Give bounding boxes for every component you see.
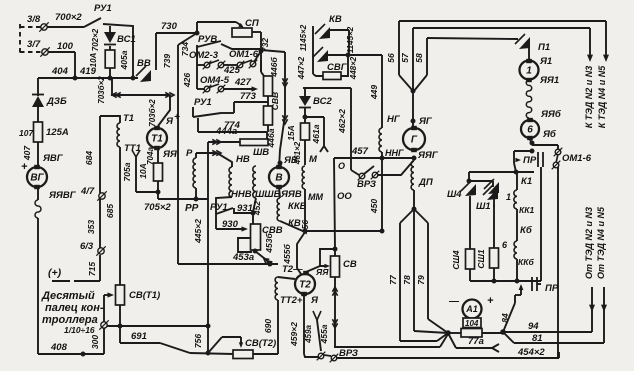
fuse 10А (ВС1 branch)	[89, 46, 115, 78]
svg-text:Т1: Т1	[151, 134, 163, 145]
svg-text:77: 77	[388, 274, 398, 285]
svg-text:756: 756	[193, 334, 203, 348]
wire switch to 405a	[103, 24, 133, 78]
label 407	[22, 145, 32, 161]
svg-text:ПР: ПР	[545, 283, 559, 294]
svg-text:ОМ1-6: ОМ1-6	[229, 49, 259, 60]
wire 756	[193, 326, 210, 355]
svg-text:1: 1	[526, 66, 532, 77]
label ННВ	[231, 189, 252, 200]
svg-text:РУ1: РУ1	[94, 3, 112, 14]
switch РУВ	[197, 34, 261, 49]
svg-text:461×2: 461×2	[293, 141, 302, 165]
svg-text:ЯЯб: ЯЯб	[540, 109, 562, 120]
svg-text:ММ: ММ	[308, 192, 323, 202]
svg-text:—: —	[448, 296, 460, 307]
motor Т1	[147, 126, 167, 149]
node junction 110/26	[109, 26, 111, 32]
wire 408	[38, 342, 104, 356]
generator ВГ	[27, 145, 47, 189]
resistor 444а	[215, 126, 268, 146]
winding НГ	[379, 114, 404, 160]
svg-text:419: 419	[79, 66, 97, 77]
wire 705x2	[158, 198, 208, 200]
svg-text:К ТЭД N2 и N3: К ТЭД N2 и N3	[584, 66, 594, 129]
fuse 15А	[286, 123, 310, 165]
wire 94	[503, 321, 592, 332]
wire 3/8 to RU1	[47, 26, 84, 28]
motor 6	[521, 118, 557, 140]
svg-text:ШШВ: ШШВ	[255, 189, 281, 200]
transformer Т1 primary	[100, 113, 134, 124]
wire ВС2 top	[303, 88, 351, 96]
node 77-79 junction	[446, 331, 451, 336]
label От ТЭД N4 и N5	[596, 206, 606, 279]
svg-text:1: 1	[506, 192, 511, 202]
wire 454 corner	[557, 352, 559, 359]
wire 264 rail	[178, 262, 278, 266]
resistor СП	[197, 18, 261, 37]
svg-text:4/7: 4/7	[80, 186, 95, 197]
arrow К ТЭД N2	[587, 28, 593, 62]
svg-text:730: 730	[161, 21, 178, 32]
node 6/3 contact	[80, 241, 106, 256]
svg-text:690: 690	[263, 319, 273, 333]
wire 449	[348, 55, 382, 128]
wire bottom rail	[337, 352, 559, 358]
wire ЯЯВ	[279, 187, 302, 200]
node 3/7 terminal	[27, 39, 50, 57]
svg-text:715: 715	[87, 262, 97, 276]
svg-text:ШВ: ШВ	[253, 147, 269, 158]
wire ЯЯ arrow	[306, 249, 335, 272]
node 4/7 contact	[80, 186, 107, 201]
winding ДП	[411, 161, 433, 190]
arrow От ТЭД N4	[601, 287, 607, 343]
svg-text:ДП: ДП	[418, 177, 433, 188]
label 703б×2 right	[148, 99, 157, 127]
svg-text:1/10÷16: 1/10÷16	[64, 325, 95, 335]
svg-text:931: 931	[237, 203, 253, 214]
svg-text:КК1: КК1	[519, 205, 534, 215]
label ЯЯ Т1	[162, 149, 178, 160]
svg-text:353: 353	[86, 220, 96, 234]
svg-text:407: 407	[22, 145, 32, 161]
switch ОМ2-3	[189, 50, 241, 76]
wire shunt right	[482, 330, 505, 335]
wire plus bracket	[52, 255, 100, 281]
wire 703б connector	[112, 78, 174, 126]
svg-text:ККВ: ККВ	[288, 201, 307, 212]
label ЯВГ	[42, 153, 64, 164]
svg-text:700×2: 700×2	[55, 12, 82, 23]
node 3/8 terminal	[27, 14, 49, 32]
arrester СВГ	[313, 47, 348, 62]
svg-text:739: 739	[162, 54, 172, 68]
fuse 125А	[19, 107, 69, 145]
svg-text:446б: 446б	[269, 57, 279, 78]
wire 739	[162, 45, 178, 264]
diode ДЗБ	[32, 95, 67, 108]
svg-text:Т2—: Т2—	[282, 264, 303, 275]
switch ВРЗ2	[317, 348, 358, 362]
svg-text:А1: А1	[465, 304, 478, 314]
svg-text:703б×2: 703б×2	[97, 76, 106, 104]
svg-text:ЯЯ: ЯЯ	[315, 267, 329, 277]
svg-text:462×2: 462×2	[337, 109, 347, 134]
svg-text:П1: П1	[538, 42, 550, 53]
wire 326 rail	[107, 324, 210, 328]
svg-text:палец кон-: палец кон-	[45, 302, 104, 314]
generator Г	[403, 91, 433, 152]
svg-text:773: 773	[240, 91, 257, 102]
svg-text:СШ1: СШ1	[476, 249, 486, 268]
label Я Т2	[310, 295, 319, 306]
wire 459а	[304, 311, 321, 351]
svg-text:К ТЭД N4 и N5: К ТЭД N4 и N5	[597, 65, 607, 128]
contact ПР bars	[538, 152, 543, 281]
svg-text:6/3: 6/3	[80, 241, 94, 252]
svg-text:78: 78	[402, 275, 412, 285]
disconnector П1	[515, 34, 550, 60]
svg-text:459а: 459а	[304, 325, 313, 344]
svg-text:81: 81	[532, 333, 543, 344]
switch ВВ	[136, 33, 156, 82]
wire ЯЯВГ squiggle	[35, 187, 41, 354]
wire СВВ2 tap bracket	[238, 238, 252, 252]
wire 446	[261, 50, 288, 168]
wire 732	[259, 32, 270, 72]
wire ЯЯ1-ЯЯб	[526, 80, 562, 120]
svg-text:ПР: ПР	[523, 155, 537, 166]
svg-text:ОМ2-3: ОМ2-3	[189, 50, 219, 61]
label К ТЭД N2 и N3	[584, 66, 594, 129]
contact ПР lower arrow	[515, 284, 523, 303]
wire 457	[334, 146, 414, 158]
svg-text:ЯЯ: ЯЯ	[162, 149, 178, 160]
label Т2-	[282, 264, 303, 275]
switch ОМ4-5	[182, 73, 258, 94]
svg-text:КВ: КВ	[329, 14, 342, 25]
svg-text:ЯЯВГ: ЯЯВГ	[48, 190, 77, 201]
svg-text:691: 691	[131, 331, 147, 342]
winding ТТ1	[117, 123, 141, 154]
wire dashed battery lead	[20, 24, 42, 55]
winding ККб	[502, 240, 534, 267]
svg-text:О: О	[338, 161, 345, 171]
wire 930 tap	[216, 213, 248, 232]
wire 79	[414, 209, 448, 333]
wire 172 rail	[467, 170, 534, 187]
svg-text:685: 685	[105, 204, 115, 218]
svg-text:107: 107	[19, 128, 34, 138]
label ШШВ	[255, 189, 281, 200]
svg-text:453б: 453б	[264, 233, 274, 254]
svg-text:445×2: 445×2	[193, 219, 203, 244]
svg-text:(+): (+)	[48, 267, 62, 279]
arrester Ш4	[447, 181, 476, 200]
svg-text:НГ: НГ	[387, 114, 401, 125]
node 1/10 contact	[64, 320, 109, 349]
svg-text:ВГ: ВГ	[30, 173, 44, 184]
wire СВВ bottom	[266, 132, 268, 139]
wire 100	[48, 41, 75, 78]
wire СВ(Т1) tap arrow	[104, 292, 114, 322]
svg-text:1145×2: 1145×2	[346, 26, 355, 53]
svg-text:450: 450	[369, 199, 379, 214]
svg-text:ТТ2+: ТТ2+	[280, 295, 303, 306]
svg-text:Яб: Яб	[542, 129, 557, 140]
label plus ВГ	[21, 161, 28, 173]
svg-text:404: 404	[51, 66, 69, 77]
svg-text:453а: 453а	[232, 252, 254, 263]
switch ОМ1-6 (right)	[552, 148, 592, 170]
resistor СВ(Т1)	[116, 285, 161, 305]
winding КК1	[506, 172, 534, 215]
text controller note line3	[42, 314, 98, 326]
wire 404-419 rail	[38, 66, 138, 80]
svg-text:84: 84	[500, 313, 510, 323]
wire left rail top	[37, 78, 39, 96]
svg-text:ЯЯГ: ЯЯГ	[417, 150, 439, 161]
svg-text:684: 684	[84, 151, 94, 165]
resistor СШ4	[451, 198, 475, 281]
wire М down	[305, 189, 382, 231]
svg-text:459×2: 459×2	[289, 322, 299, 347]
svg-text:705×2: 705×2	[144, 202, 171, 213]
svg-text:Г: Г	[411, 135, 418, 146]
svg-text:447×2: 447×2	[297, 56, 306, 80]
svg-text:НВ: НВ	[236, 154, 250, 165]
svg-text:6: 6	[502, 240, 508, 250]
svg-text:408: 408	[50, 342, 68, 353]
resistor СВВ2	[251, 224, 283, 254]
label (+)	[48, 267, 62, 279]
svg-text:ОМ4-5: ОМ4-5	[200, 75, 230, 86]
svg-text:100: 100	[57, 41, 74, 52]
label 446а	[266, 128, 276, 148]
switch ВРЗ1	[338, 160, 414, 190]
svg-text:448×2: 448×2	[349, 56, 358, 80]
svg-text:М: М	[309, 154, 318, 165]
svg-text:300: 300	[90, 335, 100, 349]
wire 454x2 vertical	[557, 167, 559, 359]
label От ТЭД N2 и N3	[584, 207, 594, 279]
wire 77а	[448, 333, 499, 352]
label 353	[86, 220, 96, 234]
arrester Ш1	[476, 185, 498, 212]
svg-text:58: 58	[414, 53, 424, 63]
label 703б×2 left	[97, 76, 106, 104]
resistor СВГ	[313, 55, 358, 80]
svg-text:125А: 125А	[46, 127, 69, 138]
contact ПР lower bars	[532, 277, 559, 294]
label 705x2	[144, 202, 171, 213]
svg-text:РР: РР	[185, 203, 199, 214]
arrester left	[484, 179, 499, 194]
svg-text:405а: 405а	[119, 50, 129, 70]
contact ПР upper	[514, 149, 537, 172]
label ЯВ	[278, 155, 298, 166]
svg-text:ЯГ: ЯГ	[418, 116, 433, 127]
svg-text:Т1: Т1	[123, 113, 134, 124]
svg-text:702×2: 702×2	[91, 28, 100, 51]
svg-text:Я: Я	[165, 116, 174, 127]
arrow От ТЭД N2	[589, 287, 595, 332]
svg-text:6: 6	[527, 125, 533, 136]
wire Яб down	[530, 138, 534, 145]
relay РУ1 contact 773	[193, 91, 268, 117]
svg-text:ЯВГ: ЯВГ	[42, 153, 64, 164]
svg-text:77а: 77а	[468, 336, 484, 347]
svg-text:446а: 446а	[266, 128, 276, 148]
resistor СШ1	[476, 205, 499, 281]
label 454x2	[517, 347, 545, 358]
wire 684	[84, 116, 100, 193]
wire to ОМ1-6	[532, 145, 558, 150]
svg-text:СВ: СВ	[343, 259, 357, 270]
svg-text:452: 452	[252, 201, 262, 216]
text controller note line1	[41, 290, 95, 302]
svg-text:461а: 461а	[311, 124, 321, 144]
svg-text:ВРЗ: ВРЗ	[357, 179, 376, 190]
svg-text:705а: 705а	[122, 162, 132, 181]
svg-text:ОО: ОО	[337, 191, 352, 202]
svg-text:ОМ1-6: ОМ1-6	[562, 153, 592, 164]
switch РУ1 (top)	[84, 3, 112, 27]
svg-text:57: 57	[400, 52, 410, 63]
svg-text:10А: 10А	[138, 163, 148, 179]
wire ДП down	[413, 190, 415, 209]
label 446б	[269, 57, 279, 78]
label Я plus	[165, 112, 180, 127]
label 704а	[146, 147, 155, 165]
wire ТТ1 down	[119, 147, 121, 192]
arrow К ТЭД N4	[603, 21, 609, 62]
svg-text:449: 449	[369, 85, 379, 100]
winding НВ	[216, 154, 250, 213]
diode ВС2	[299, 96, 332, 108]
svg-text:Р: Р	[186, 148, 193, 159]
svg-text:427: 427	[234, 77, 252, 88]
svg-text:Т2: Т2	[299, 280, 311, 291]
svg-text:ВС2: ВС2	[313, 96, 332, 107]
wire 300	[103, 328, 105, 354]
exciter В	[269, 165, 289, 188]
svg-text:94: 94	[528, 321, 539, 332]
ammeter А1	[448, 295, 494, 319]
svg-text:455б: 455б	[282, 244, 292, 265]
label РР	[185, 203, 199, 214]
winding Р	[186, 148, 198, 201]
svg-text:3/8: 3/8	[27, 14, 41, 25]
motor 1	[520, 56, 560, 86]
wire 461а branch	[303, 108, 328, 152]
wire 705а fork	[122, 150, 158, 192]
svg-text:704а: 704а	[146, 147, 155, 165]
wire Кб	[517, 209, 533, 241]
wire 58	[411, 38, 518, 93]
svg-text:79: 79	[416, 275, 426, 285]
svg-text:703б×2: 703б×2	[148, 99, 157, 127]
svg-text:ЯЯ1: ЯЯ1	[539, 75, 559, 86]
svg-text:ВС1: ВС1	[117, 34, 136, 45]
svg-text:457: 457	[351, 146, 369, 157]
svg-text:Я: Я	[310, 295, 319, 306]
diode ВС1	[91, 28, 136, 51]
wire 445x2	[193, 153, 208, 326]
contactor К1 coil	[521, 176, 532, 187]
svg-text:ННВ: ННВ	[231, 189, 252, 200]
wire 1145x2	[346, 26, 355, 57]
svg-text:СШ4: СШ4	[451, 250, 461, 269]
wire 700x2 label	[55, 12, 82, 23]
svg-text:ННГ: ННГ	[385, 148, 404, 158]
svg-text:Ш4: Ш4	[447, 189, 462, 200]
svg-text:15А: 15А	[286, 125, 296, 141]
wire 57	[400, 28, 590, 91]
svg-text:+: +	[487, 295, 494, 307]
winding ШВ	[252, 147, 269, 224]
wire К1 bottom	[470, 259, 541, 283]
svg-text:ЯЯВ: ЯЯВ	[280, 189, 302, 200]
wire 455б	[280, 221, 307, 274]
svg-text:СВВ: СВВ	[270, 92, 280, 110]
svg-text:3/7: 3/7	[27, 39, 41, 50]
wire 691	[120, 305, 233, 354]
label ЯЯГ	[412, 150, 439, 161]
wire 685	[105, 192, 120, 285]
wire 444а left	[208, 139, 240, 153]
resistor СВ(Т2)	[233, 338, 276, 359]
svg-text:От ТЭД N2 и N3: От ТЭД N2 и N3	[584, 207, 594, 279]
resistor СВ	[331, 249, 357, 277]
wire 715	[87, 199, 100, 276]
svg-text:426: 426	[182, 73, 192, 88]
wire 77	[388, 207, 448, 341]
label ТТ2+	[280, 295, 303, 306]
svg-text:Я1: Я1	[539, 56, 552, 67]
resistor СВВ (field weakening)	[261, 60, 280, 132]
svg-text:СВ(Т2): СВ(Т2)	[245, 338, 276, 349]
node РУВ junction	[195, 31, 199, 35]
label 405а	[119, 50, 129, 70]
wire shunt left	[448, 332, 461, 334]
svg-text:56: 56	[386, 53, 396, 63]
wire 734 diagonal	[178, 33, 197, 56]
arrester КВ	[297, 14, 349, 80]
switch ОМ1-6 (top)	[223, 49, 261, 69]
label ЯЯВГ	[48, 190, 77, 201]
relay РУ1 contact 774	[198, 118, 267, 132]
wire ОО	[333, 158, 352, 251]
svg-text:Ш1: Ш1	[476, 201, 491, 212]
shunt 104 box	[461, 318, 482, 337]
wire 455а	[319, 277, 338, 347]
wire chevron to НВ	[196, 150, 232, 167]
svg-text:Десятый: Десятый	[41, 290, 95, 302]
wire 730	[156, 21, 197, 33]
svg-text:444а: 444а	[215, 126, 237, 137]
wire 450	[369, 158, 384, 233]
motor Т2	[295, 271, 315, 295]
winding ТТ2	[275, 277, 295, 300]
fuse 10А (Т1)	[138, 148, 163, 199]
label К ТЭД N4 и N5	[597, 65, 607, 128]
wire 347 rail	[334, 334, 448, 347]
winding М	[302, 154, 323, 202]
svg-text:ДЗБ: ДЗБ	[46, 96, 67, 107]
